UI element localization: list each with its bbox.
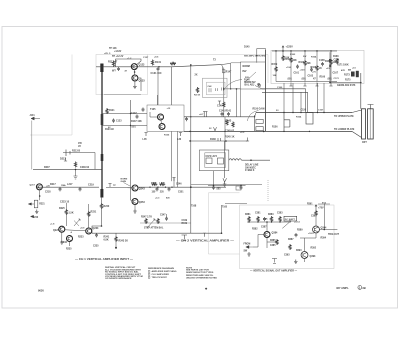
wire cell drop (94, 153, 96, 170)
svg-text:C171: C171 (334, 59, 340, 62)
ground below R42 (35, 210, 39, 214)
section outline upper-left stage box (96, 55, 148, 95)
svg-text:Q133: Q133 (139, 80, 146, 83)
svg-text:C167: C167 (333, 73, 339, 75)
svg-text:REFERENCE DIAGRAMS: REFERENCE DIAGRAMS (148, 267, 175, 270)
wire Q5 link (130, 188, 133, 190)
svg-text:C223 10: C223 10 (60, 201, 70, 204)
capacitor C1 (117, 67, 120, 71)
svg-text:R207: R207 (44, 166, 50, 169)
svg-text:6.8K: 6.8K (285, 58, 290, 60)
wire Q10 collector up (88, 204, 90, 228)
svg-text:R381: R381 (245, 214, 251, 216)
svg-text:R235: R235 (66, 249, 72, 251)
svg-text:C123: C123 (116, 121, 122, 123)
capacitor C23 tap (112, 119, 115, 123)
svg-text:186 NSEC: 186 NSEC (245, 167, 256, 169)
svg-text:C127: C127 (143, 57, 149, 59)
svg-text:TP +12 2V: TP +12 2V (112, 55, 124, 58)
feedback network outer box (199, 150, 228, 171)
delay line DL1 vertical (101, 64, 103, 197)
ground T x184 (182, 235, 188, 241)
delay line bottom resistor (100, 203, 102, 209)
termination box A1 (256, 119, 263, 123)
wire row y169 (33, 168, 102, 170)
wire R44 stem (65, 203, 67, 226)
svg-text:C158: C158 (301, 110, 307, 112)
ground battery (64, 158, 67, 162)
wire Q13 emitter (304, 259, 306, 263)
svg-text:9030: 9030 (38, 289, 44, 293)
delay line third ferrule (101, 154, 104, 161)
svg-text:R2 1K: R2 1K (194, 95, 201, 97)
wire double exit lower (262, 92, 308, 112)
svg-text:R166: R166 (320, 77, 326, 79)
LR resistor a (248, 216, 250, 222)
wire bank v1 (282, 51, 284, 55)
svg-text:39K: 39K (307, 63, 312, 65)
wire to upper plate (360, 73, 362, 109)
transistor Q1 (131, 64, 137, 70)
svg-text:R147: R147 (226, 71, 232, 74)
junction tap a (130, 113, 131, 114)
ground Q8 (60, 240, 64, 244)
component subnet c (222, 88, 224, 91)
svg-text:R154: R154 (296, 116, 302, 119)
svg-text:R213 B: R213 B (72, 150, 80, 153)
svg-text:R389: R389 (297, 230, 303, 232)
wire switch box drop (240, 89, 242, 117)
svg-text:R123 93: R123 93 (105, 129, 114, 131)
termination box C (306, 113, 313, 125)
resistor bank frame (271, 50, 364, 83)
svg-text:R233: R233 (78, 237, 84, 239)
svg-text:R145 1K: R145 1K (225, 136, 235, 139)
sub network box mid (203, 78, 228, 97)
svg-text:C131 100: C131 100 (151, 72, 162, 75)
svg-text:R221: R221 (39, 204, 45, 206)
svg-text:R163: R163 (299, 61, 305, 64)
svg-text:+12.8V: +12.8V (114, 51, 122, 53)
trimmer arrow diag (147, 219, 155, 228)
wire bank v2 (290, 51, 292, 82)
svg-text:C219: C219 (88, 184, 94, 187)
CRT deflection plate right (368, 109, 374, 139)
svg-text:R138: R138 (210, 138, 216, 141)
svg-text:467 AMPL: 467 AMPL (336, 286, 349, 290)
svg-text:R393: R393 (296, 250, 302, 252)
svg-text:J240: J240 (33, 216, 39, 219)
transistor Q5 (132, 185, 138, 191)
svg-text:TRIG PICKOFF: TRIG PICKOFF (152, 277, 168, 279)
wire output box bottom rail (330, 82, 361, 84)
connector T2 below box (179, 133, 182, 137)
capacitor C41 row (79, 187, 82, 191)
feedback element box1 (206, 158, 212, 164)
wire y233 extend (190, 232, 222, 234)
wire dl bottom stem (92, 197, 102, 233)
terminal dot R46 (115, 247, 117, 249)
svg-text:C381: C381 (255, 213, 261, 215)
circled mark (358, 286, 362, 290)
junction output rail left (329, 82, 331, 84)
svg-text:R382: R382 (252, 229, 258, 231)
svg-text:Q123: Q123 (139, 64, 146, 67)
wire dl tap lower (102, 125, 147, 127)
wire bank v5 (330, 51, 332, 82)
svg-text:C145 62: C145 62 (225, 130, 235, 133)
svg-text:.005: .005 (216, 189, 221, 191)
wire R46 stem (115, 233, 117, 247)
delay line top ferrule (100, 64, 103, 73)
svg-text:C160: C160 (277, 87, 283, 89)
switch wiper (245, 72, 256, 82)
svg-text:1.5K: 1.5K (69, 212, 74, 215)
LR resistor feed (315, 210, 317, 216)
wire Q6 link (131, 200, 133, 201)
junction x190 bus (189, 131, 190, 132)
wire Q3 base left (150, 112, 158, 117)
junction stage2 (158, 66, 160, 68)
wire feedback center stem (224, 141, 226, 178)
junction x225 (224, 131, 225, 132)
trimmer cross b (74, 221, 79, 227)
svg-text:GAIN: GAIN (121, 180, 127, 183)
wire Q1-Q2 link (134, 70, 136, 75)
resistor bank far right (336, 58, 338, 64)
wire top extend (221, 63, 231, 89)
svg-text:Q217: Q217 (30, 184, 36, 186)
CRT plate inner line (369, 109, 371, 139)
svg-text:C141 R141: C141 R141 (219, 110, 232, 113)
svg-text:R159: R159 (272, 63, 278, 66)
wire dashed drop x268 (267, 180, 269, 202)
svg-text:TP: TP (348, 69, 351, 72)
svg-text:47K: 47K (341, 69, 345, 72)
svg-text:R112 47: R112 47 (108, 61, 118, 64)
svg-text:3B: 3B (362, 286, 365, 290)
wire Q8-Q10 (65, 230, 86, 231)
wire bus upper right y112.5 (256, 112, 352, 114)
svg-text:+18.5: +18.5 (308, 233, 314, 235)
wire LR top link (318, 203, 330, 205)
resistor R11 bank (282, 55, 284, 61)
resistor LR h (289, 244, 291, 250)
svg-text:1MA: 1MA (61, 184, 66, 187)
legend item 1 symbol (148, 271, 150, 273)
feedback network inner box (205, 153, 226, 168)
notes left block (105, 266, 143, 280)
component top x223 (223, 70, 225, 73)
wire LR rail (247, 221, 290, 223)
svg-text:6.8K: 6.8K (104, 238, 109, 241)
svg-text:R171 100K: R171 100K (337, 65, 349, 67)
connector T y233 (203, 233, 206, 237)
wire right drop x171 (171, 67, 173, 105)
svg-text:R156: R156 (272, 127, 278, 129)
wire Q13 path (300, 233, 316, 251)
svg-text:C172: C172 (334, 78, 340, 80)
resistor R46 y233 (115, 236, 117, 242)
diode D2 output box (329, 65, 331, 68)
pointer norm gain (124, 183, 131, 187)
svg-text:R347 2.7K: R347 2.7K (141, 216, 152, 219)
svg-text:R217: R217 (50, 183, 56, 186)
diode D output box (329, 59, 331, 62)
svg-text:CH 2 AMPLIFIER: CH 2 AMPLIFIER (152, 273, 170, 276)
svg-text:Q343: Q343 (139, 188, 146, 191)
junction x221.5 (221, 232, 223, 234)
svg-text:10K: 10K (273, 75, 277, 77)
junction y169 (75, 169, 77, 171)
svg-text:L35: L35 (143, 138, 148, 141)
capacitor C30 row (156, 187, 159, 191)
svg-text:R164: R164 (311, 56, 317, 59)
svg-text:R391: R391 (307, 204, 313, 206)
svg-text:Q353: Q353 (139, 201, 146, 204)
wire left drop x130 (130, 100, 132, 200)
junction top extend (230, 88, 231, 89)
connector T x220 (218, 101, 221, 105)
connector LR input (246, 246, 253, 249)
wire drop x225 to feedback (224, 131, 226, 150)
svg-text:OF INFINITE IMPEDANCE: OF INFINITE IMPEDANCE (105, 277, 132, 280)
diode CR2 left column (232, 122, 234, 128)
capacitor C14 bank (321, 62, 324, 66)
svg-text:STEP ATTEN BAL: STEP ATTEN BAL (144, 227, 164, 230)
LR power feed (315, 205, 317, 210)
wire squiggle right (242, 159, 270, 161)
component subnet b (216, 88, 218, 91)
resistor R30 row (152, 183, 158, 185)
section outline upper main box top edge (148, 55, 269, 84)
wire bank bottom rail (276, 81, 337, 83)
connector T3 on upper bus (203, 112, 208, 117)
ground LR input (247, 252, 251, 256)
resistor R16 bank (275, 66, 277, 72)
svg-text:R225: R225 (59, 207, 65, 210)
wire Q9 emitter (69, 242, 71, 246)
svg-text:CRT: CRT (362, 142, 367, 144)
delay line bottom ferrule (100, 189, 103, 198)
svg-text:R231: R231 (91, 211, 97, 214)
svg-text:TRIG OUT: TRIG OUT (328, 234, 340, 236)
svg-text:R383: R383 (268, 214, 274, 216)
resistor R2 stage2 (151, 60, 153, 66)
trimmer cross a (74, 219, 80, 226)
junction x190 row (190, 186, 192, 188)
delay line mid ferrule (101, 114, 104, 125)
svg-text:R136: R136 (164, 135, 170, 137)
svg-text:R349: R349 (182, 222, 188, 225)
section outline left step (30, 55, 72, 136)
feedback element box2 (218, 158, 224, 164)
junction row c (149, 187, 150, 188)
wire drop x236.5 (236, 89, 238, 117)
svg-text:R392: R392 (311, 248, 317, 250)
section outline lower step (208, 193, 239, 254)
trimmer row line (140, 222, 191, 224)
capacitor bank m1 (296, 65, 299, 69)
svg-text:C349: C349 (182, 219, 188, 222)
switch box upper mid (241, 62, 266, 89)
wire Q2 emitter (134, 81, 136, 84)
junction dl bottom (101, 225, 103, 227)
junction bus1 end (254, 116, 255, 117)
svg-text:C157: C157 (318, 110, 324, 112)
wire base feed y59 (116, 59, 141, 67)
wire x225 upper (224, 117, 226, 132)
wire bus upper y117 (184, 116, 255, 118)
inductor L squiggle (229, 159, 242, 161)
svg-text:Q224: Q224 (53, 229, 60, 232)
wire feedback top y141 (190, 140, 248, 142)
connector T x174 (172, 178, 175, 182)
junction dots bank rail (275, 50, 331, 52)
wire row y187 (138, 186, 226, 188)
resistor box R42 (34, 200, 38, 208)
wire Q7 row y187.2 (36, 186, 99, 188)
arrow onto lower bus (214, 127, 217, 131)
transistor Q6 (132, 199, 138, 205)
component subnet a (209, 88, 211, 92)
svg-text:C163: C163 (308, 76, 314, 78)
termination box A2 (256, 127, 263, 131)
svg-text:TO UPPER PLATE: TO UPPER PLATE (334, 115, 354, 118)
resistor R15 bank (330, 59, 332, 65)
svg-text:82K: 82K (293, 60, 298, 62)
wire stage2 drop (157, 71, 159, 105)
svg-text:+120: +120 (300, 70, 306, 72)
svg-text:R137 10K: R137 10K (131, 120, 142, 123)
connector T bank4 (329, 83, 332, 87)
wire Q11 emitter (267, 238, 277, 248)
svg-text:C393: C393 (284, 255, 290, 257)
arrow feedback stem (223, 178, 227, 182)
resistor above pot (74, 162, 76, 168)
svg-text:SEE AMPL SWITCHING: SEE AMPL SWITCHING (244, 55, 267, 58)
junction squiggle wire (250, 159, 252, 161)
wire LR feed (315, 216, 317, 226)
connector T y141 (246, 138, 249, 142)
wire Q8 emitter (61, 232, 63, 240)
svg-text:1K: 1K (319, 68, 322, 70)
svg-text:50%: 50% (245, 77, 249, 79)
junction bus lower x263 (263, 131, 265, 133)
connector T Q5 base (108, 184, 111, 188)
svg-text:C372 L372: C372 L372 (206, 156, 218, 158)
capacitor C45 y233 (95, 233, 98, 237)
resistor R13 bank (304, 60, 306, 66)
transistor Q9 (67, 236, 73, 242)
legend item 3 symbol (148, 277, 150, 279)
LR trimmer arrow (282, 221, 291, 229)
wire lower link y185.5 (208, 185, 246, 187)
svg-text:R121: R121 (109, 110, 115, 112)
junction Q1-Q2 (134, 71, 136, 73)
svg-text:1.5K: 1.5K (263, 219, 268, 221)
junction x190 top (190, 64, 192, 66)
sub network inner box (207, 82, 226, 95)
svg-text:T168: T168 (191, 205, 197, 208)
junction delay line top (101, 66, 103, 68)
LR resistor f (276, 239, 278, 245)
resistor R44 vert (65, 209, 67, 215)
svg-text:R131: R131 (155, 61, 162, 64)
wire bank v4 (316, 51, 318, 82)
wire bank drop c (300, 92, 302, 112)
transistor Q10 (86, 228, 92, 234)
wire slant to upper plate (352, 110, 362, 113)
wire left edge drop (31, 121, 33, 170)
connector T bank1 (289, 83, 292, 87)
wire Q3-Q4 (160, 120, 163, 124)
junction y141 (225, 140, 227, 142)
wire bank top rail (272, 50, 337, 52)
wire bank drop d (317, 83, 319, 113)
wire into box top (157, 95, 159, 105)
junction x190 bus1 (190, 116, 191, 117)
wire top right drop (221, 65, 222, 70)
component small box mid (236, 186, 241, 190)
wire drop x223.8 top (223, 68, 225, 117)
transistor Q2 (132, 75, 138, 81)
bracket network B stem (284, 113, 290, 132)
wire stage floor (104, 94, 141, 96)
svg-text:.001: .001 (327, 78, 332, 81)
svg-text:GEOM ADJ R176: GEOM ADJ R176 (337, 84, 356, 87)
svg-text:— CH 1 VERTICAL AMPLIFIER INPU: — CH 1 VERTICAL AMPLIFIER INPUT — (75, 258, 134, 261)
capacitor C21 below y185 (212, 186, 215, 190)
svg-text:+12.4: +12.4 (294, 221, 300, 224)
resistor R1 (112, 61, 114, 67)
svg-text:R175: R175 (345, 80, 351, 82)
wire bank v0 (275, 51, 277, 82)
junction y185 a (213, 185, 215, 187)
connector input mid-left (31, 117, 40, 120)
junction row a (157, 187, 158, 188)
legend item 2 symbol (148, 274, 150, 276)
wire drop x171 low (171, 131, 173, 181)
wire LR output (320, 229, 338, 231)
svg-text:R387: R387 (288, 239, 294, 241)
junction ring left (258, 84, 260, 86)
svg-text:J101: J101 (30, 115, 36, 117)
wire top link (257, 49, 266, 63)
junction row d (165, 187, 166, 188)
wire bus lower y131.4 (184, 130, 352, 132)
ground Q13b (272, 259, 277, 264)
LR transistor Q12 (313, 226, 320, 233)
connector T bank3 (315, 83, 318, 87)
capacitor C8 cluster (227, 112, 230, 116)
svg-text:TP 128: TP 128 (109, 48, 117, 50)
junction dots bus (283, 112, 324, 132)
section outline lower-right amplifier box (240, 205, 335, 269)
junction y141 left (189, 140, 190, 141)
svg-text:BAL ADJ: BAL ADJ (245, 84, 256, 87)
adjust arc pointer 2 (247, 110, 258, 121)
svg-text:TO LOWER PLATE: TO LOWER PLATE (334, 128, 355, 131)
svg-text:T165: T165 (222, 207, 228, 209)
wire Q7 emitter (36, 190, 40, 200)
ground feedback stem (223, 182, 227, 186)
junction tap b (130, 125, 131, 126)
svg-text:C346: C346 (176, 183, 182, 186)
svg-text:.001: .001 (131, 126, 136, 129)
svg-text:SEMICONDUCTOR TYPES: SEMICONDUCTOR TYPES (186, 272, 214, 274)
svg-text:C383: C383 (277, 213, 283, 215)
